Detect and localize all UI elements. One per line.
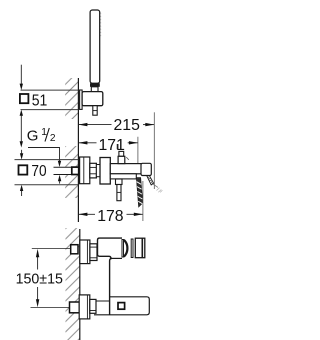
svg-text:2: 2 (50, 133, 56, 144)
svg-text:51: 51 (32, 92, 48, 109)
svg-text:215: 215 (114, 117, 141, 134)
svg-text:70: 70 (31, 163, 46, 180)
svg-text:G: G (27, 128, 39, 145)
svg-text:150±15: 150±15 (16, 271, 63, 287)
svg-text:178: 178 (97, 208, 124, 225)
